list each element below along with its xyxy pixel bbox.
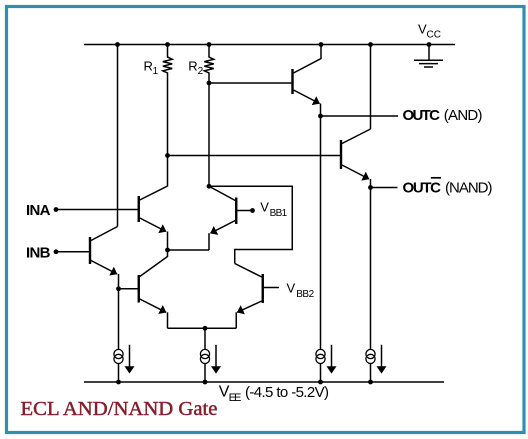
svg-text:INB: INB [26,245,51,262]
resistor R2 [204,45,213,84]
wire INA input [56,209,138,211]
wire VEE bottom rail [84,381,444,383]
node bottom rail I2 [203,380,208,385]
wire R2 node to Q2 collector [208,83,210,186]
transistor Q5 emitter-follower OUTC [293,45,322,117]
wire VCC top rail [84,44,455,46]
resistor R1 [163,45,172,156]
wire VBB1 base stub [237,210,252,212]
svg-text:ECL AND/NAND Gate: ECL AND/NAND Gate [21,399,218,420]
transistor Q4b input B lower pair [139,250,168,328]
label R1 [144,59,159,77]
svg-text:V: V [260,200,269,215]
transistor Q3 input B emitter follower [90,227,119,289]
node bottom rail I1 [116,380,121,385]
current source I4 [366,349,375,363]
svg-text:EE: EE [229,392,242,404]
transistor Q4 reference VBB2 lower pair [235,264,263,329]
wire lower pair common emitters [168,327,237,329]
node Q3 emitter [116,286,121,291]
svg-text:V: V [287,281,296,296]
node R2 bottom [207,81,212,86]
node Q2 collector [207,184,212,189]
svg-text:2: 2 [198,66,204,77]
svg-text:(AND): (AND) [444,107,483,124]
node R1 bottom [165,153,170,158]
node INA terminal [54,207,59,212]
node OUTC [318,114,323,119]
wire OUTC output [321,115,399,117]
wire VCC rail down to Q6 collector [370,45,372,130]
wire OUTC node down to current source I3 [320,116,322,382]
current source I3 [316,349,325,363]
wire upper pair common emitters [168,249,210,251]
label VBB2 [287,281,315,300]
svg-text:OUTC: OUTC [403,107,441,124]
label OUTC (AND) [403,107,483,124]
wire lower emitter node down to current source I2 [204,328,206,382]
svg-text:(NAND): (NAND) [445,180,493,197]
wire VBB2 base stub [264,287,279,289]
label VBB1 [260,200,287,219]
ground [414,45,443,68]
label R2 [188,59,203,77]
wire R2 node to Q5 base [209,82,292,84]
transistor Q6 emitter-follower OUTC-bar [341,129,371,188]
node upper emitters [165,248,170,253]
junction dots top rail [54,42,432,384]
wire AND-node link from Q2 collector to Q4 collector [209,186,292,263]
current source I2 [200,349,209,363]
wire Q3a collector to VCC rail [117,45,119,227]
svg-text:OUTC: OUTC [403,180,442,197]
svg-text:BB1: BB1 [270,208,288,219]
svg-text:BB2: BB2 [296,289,314,300]
node OUTC-bar [368,185,373,190]
wire OUTC-bar output [371,187,398,189]
node INB terminal [54,249,59,254]
node VBB1 terminal [250,208,255,213]
svg-text:(-4.5 to -5.2V): (-4.5 to -5.2V) [245,384,329,401]
node bottom rail I4 [368,380,373,385]
wire INB input [56,251,89,253]
wire R1 node to Q6 base [168,155,341,157]
svg-text:R: R [144,59,153,74]
transistor Q1 input A upper pair [139,156,168,251]
wire Q3 emitter to Q4b base [119,288,139,290]
svg-text:CC: CC [427,30,442,41]
svg-text:R: R [188,59,197,74]
svg-text:1: 1 [153,66,159,77]
wire OUTC-bar node down to current source I4 [370,188,372,383]
transistor Q2 reference VBB1 upper pair [209,186,236,250]
label VCC [418,22,441,41]
current source I1 [114,349,123,363]
label VEE and supply range [219,384,329,405]
svg-text:INA: INA [26,202,51,219]
node bottom rail I3 [318,380,323,385]
node lower emitters [203,326,208,331]
wire Q3 emitter node down to current source I1 [118,289,120,382]
label OUTC-bar (NAND) [403,178,493,197]
